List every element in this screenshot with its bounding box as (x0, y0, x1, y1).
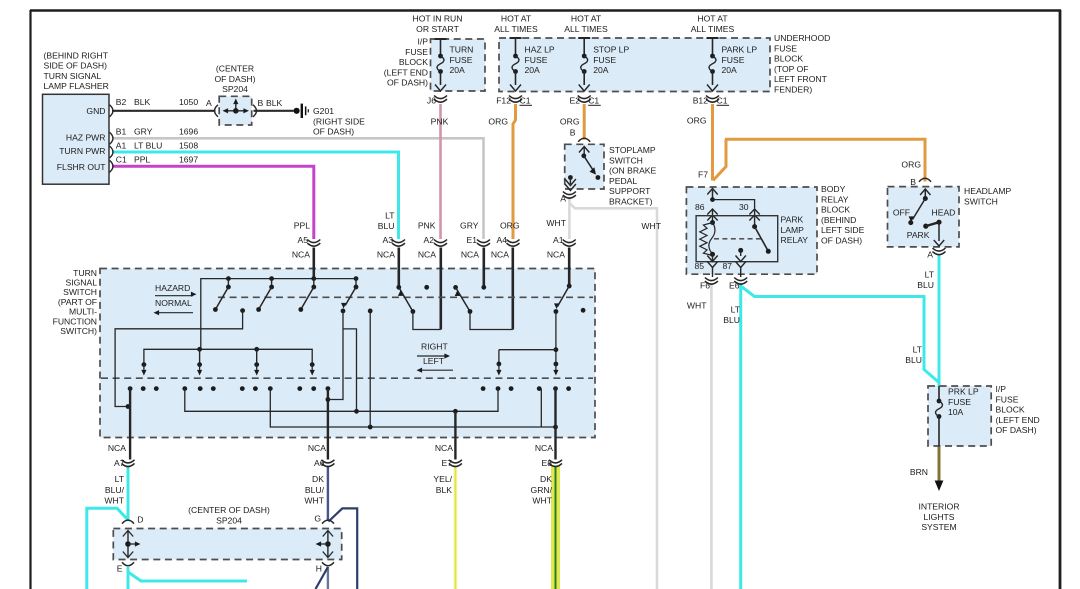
svg-text:A1: A1 (553, 235, 564, 245)
svg-text:FUSE: FUSE (525, 55, 548, 65)
connector J6 (434, 96, 447, 103)
relay pin 30 (749, 209, 759, 215)
svg-text:PEDAL: PEDAL (609, 176, 637, 186)
svg-text:NCA: NCA (547, 250, 565, 260)
svg-text:TURN: TURN (450, 45, 474, 55)
wire FLSHR OUT PPL 1697 (112, 166, 314, 239)
relay coil resistor (710, 220, 715, 225)
label INTERIOR LIGHTS SYSTEM (918, 502, 959, 533)
wire ORG branch to headlamp switch B (713, 139, 726, 180)
svg-text:1696: 1696 (179, 127, 198, 137)
output feed E7 (454, 411, 456, 459)
svg-text:GND: GND (86, 106, 105, 116)
label PARK LAMP RELAY (781, 215, 809, 246)
label HOT AT ALL TIMES (HAZ) (494, 14, 538, 34)
svg-text:20A: 20A (525, 65, 541, 75)
svg-text:SWITCH): SWITCH) (60, 326, 97, 336)
turn signal lamp flasher box (43, 94, 110, 184)
lower dashed position line (101, 377, 593, 379)
connector headlamp B (919, 178, 931, 182)
svg-text:C1: C1 (588, 96, 599, 106)
svg-text:NCA: NCA (377, 250, 395, 260)
svg-text:FUSE: FUSE (450, 55, 473, 65)
hazard contact bus (201, 279, 356, 350)
svg-text:HAZ PWR: HAZ PWR (66, 132, 106, 142)
svg-text:A: A (927, 250, 933, 260)
middle selector bus (144, 349, 312, 364)
wire LT BLU headlamp A to PRK LP fuse (938, 255, 941, 387)
interior lights system arrow (938, 478, 941, 482)
svg-text:BLK: BLK (436, 485, 453, 495)
connector stoplamp B (578, 138, 590, 142)
label (BEHIND RIGHT SIDE OF DASH) TURN SIGNAL LAMP FLASHER (44, 50, 109, 91)
svg-text:BLK: BLK (266, 98, 283, 108)
svg-text:F7: F7 (698, 170, 708, 180)
connector H (322, 562, 334, 566)
relay F7 entry arrow (712, 190, 714, 200)
svg-text:B2: B2 (116, 97, 127, 107)
node and feed to A7 group (240, 308, 245, 313)
svg-text:ALL TIMES: ALL TIMES (564, 24, 608, 34)
svg-text:E7: E7 (441, 458, 452, 468)
contact A3-A2 (right turn) (396, 285, 401, 290)
svg-text:FLSHR OUT: FLSHR OUT (57, 162, 106, 172)
svg-text:PPL: PPL (294, 221, 310, 231)
svg-text:SWITCH: SWITCH (964, 196, 998, 206)
svg-text:HEAD: HEAD (932, 208, 956, 218)
svg-text:RELAY: RELAY (781, 235, 809, 245)
svg-text:BLU/: BLU/ (305, 485, 325, 495)
wire DK GRN/WHT from E8 down (551, 466, 560, 589)
wire LT BLU/WHT from splice E down and right (128, 567, 247, 581)
label UNDERHOOD FUSE BLOCK (774, 33, 830, 95)
svg-text:OF DASH): OF DASH) (387, 78, 428, 88)
connector stoplamp A (563, 192, 576, 199)
fuse PRK LP FUSE 10A (938, 386, 940, 401)
label (CENTER OF DASH) SP204 top (214, 64, 255, 95)
fuse STOP LP FUSE 20A (578, 37, 590, 39)
svg-text:20A: 20A (722, 65, 738, 75)
output feed E8 (554, 389, 556, 460)
svg-text:PPL: PPL (134, 155, 150, 165)
svg-text:SUPPORT: SUPPORT (609, 186, 651, 196)
svg-text:HOT IN RUN: HOT IN RUN (413, 14, 463, 24)
svg-text:B1: B1 (116, 127, 127, 137)
svg-text:A: A (560, 194, 566, 204)
park lamp relay box (696, 216, 778, 262)
svg-text:30: 30 (739, 202, 749, 212)
svg-text:HOT AT: HOT AT (697, 14, 728, 24)
svg-text:OR START: OR START (416, 24, 459, 34)
I/P fuse block (PRK LP) box (928, 386, 991, 446)
splice internal right (327, 531, 329, 557)
splice SP204 (center of dash) (219, 96, 252, 125)
svg-text:FUSE: FUSE (593, 55, 616, 65)
svg-text:(ON BRAKE: (ON BRAKE (609, 166, 657, 176)
svg-text:FUSE: FUSE (774, 43, 797, 53)
svg-text:I/P: I/P (417, 37, 428, 47)
svg-text:SP204: SP204 (222, 84, 248, 94)
wire YEL/BLK from E7 down (454, 466, 458, 589)
upper dashed position line (218, 296, 593, 298)
svg-text:SIDE OF DASH): SIDE OF DASH) (44, 61, 108, 71)
svg-text:H: H (316, 564, 322, 574)
svg-text:NCA: NCA (435, 443, 453, 453)
wire LT BLU/WHT from A7 to splice D (127, 466, 130, 521)
body relay block box (686, 187, 817, 274)
svg-text:LT: LT (731, 305, 741, 315)
connector headlamp A (933, 248, 946, 255)
svg-text:E6: E6 (729, 281, 740, 291)
wire DK BLU/WHT from splice H down (327, 567, 329, 589)
svg-text:F6: F6 (700, 281, 710, 291)
splice internal left (127, 531, 129, 557)
svg-text:ALL TIMES: ALL TIMES (494, 24, 538, 34)
label I/P FUSE BLOCK (LEFT END OF DASH) (384, 37, 429, 88)
svg-text:OF DASH): OF DASH) (214, 74, 255, 84)
svg-text:NCA: NCA (461, 250, 479, 260)
headlamp switch internals (924, 190, 926, 199)
svg-text:HAZ LP: HAZ LP (525, 45, 555, 55)
svg-text:HEADLAMP: HEADLAMP (964, 186, 1012, 196)
svg-text:87: 87 (722, 261, 732, 271)
stoplamp switch box (565, 144, 604, 189)
label STOPLAMP SWITCH (ON BRAKE PEDAL SUPPORT BRACKET) (609, 145, 657, 207)
svg-text:C1: C1 (116, 155, 127, 165)
svg-text:NCA: NCA (292, 250, 310, 260)
label I/P FUSE BLOCK (LEFT END OF DASH) right (996, 384, 1040, 435)
svg-text:HAZARD: HAZARD (155, 283, 190, 293)
svg-text:B12: B12 (693, 96, 709, 106)
svg-text:LT BLU: LT BLU (134, 140, 162, 150)
wire from contact 4 to A6 line (328, 311, 343, 400)
svg-text:A6: A6 (314, 458, 325, 468)
relay feed wiring (710, 197, 715, 202)
wire GND BLK 1050 (112, 110, 216, 112)
relay mechanical link dashed (714, 238, 762, 240)
svg-text:ORG: ORG (500, 221, 520, 231)
contact position dots row (128, 386, 133, 391)
labels B BLK G201 (258, 98, 283, 108)
svg-text:E1: E1 (466, 235, 477, 245)
relay pin 85 (712, 254, 714, 261)
svg-text:LT: LT (925, 270, 935, 280)
svg-text:ORG: ORG (560, 117, 580, 127)
wire DK BLU/WHT from A6 to splice G (327, 466, 329, 521)
svg-text:WHT: WHT (687, 301, 707, 311)
svg-text:A2: A2 (423, 235, 434, 245)
svg-text:E8: E8 (541, 458, 552, 468)
headlamp switch box (888, 187, 960, 247)
svg-text:SWITCH: SWITCH (63, 287, 97, 297)
svg-text:NCA: NCA (418, 250, 436, 260)
wire ORG from PARK LP fuse B12 to relay F7 (711, 104, 714, 181)
svg-text:HOT AT: HOT AT (501, 14, 532, 24)
svg-text:OF DASH): OF DASH) (996, 425, 1037, 435)
svg-text:TURN SIGNAL: TURN SIGNAL (44, 71, 102, 81)
svg-text:STOP LP: STOP LP (593, 45, 629, 55)
svg-text:FUSE: FUSE (996, 394, 1019, 404)
svg-text:20A: 20A (593, 65, 609, 75)
svg-text:PARK: PARK (781, 215, 804, 225)
svg-text:TURN PWR: TURN PWR (59, 146, 105, 156)
label BODY RELAY BLOCK (BEHIND LEFT SIDE OF DASH) (821, 184, 865, 246)
svg-text:NCA: NCA (491, 250, 509, 260)
wire DK BLU/WHT branch from G down right (329, 508, 358, 589)
wire ORG from HAZ LP fuse F12 to A4 (513, 104, 516, 239)
svg-text:WHT: WHT (546, 218, 566, 228)
svg-text:LIGHTS: LIGHTS (923, 512, 954, 522)
svg-text:(PART OF: (PART OF (58, 297, 97, 307)
svg-text:WHT: WHT (532, 496, 552, 506)
hazard contact 2 (269, 276, 274, 281)
contact A1 (brake feed) (567, 284, 572, 289)
svg-text:J6: J6 (427, 96, 436, 106)
routing line H1 (185, 389, 498, 412)
svg-text:LEFT FRONT: LEFT FRONT (774, 74, 828, 84)
svg-text:B: B (910, 177, 916, 187)
wire PNK from TURN fuse J6 to A2 (439, 104, 442, 239)
svg-text:WHT: WHT (104, 496, 124, 506)
wire WHT stoplamp A branch right and down (569, 197, 657, 589)
svg-text:NCA: NCA (308, 443, 326, 453)
svg-text:86: 86 (695, 202, 705, 212)
svg-text:BRN: BRN (910, 467, 928, 477)
svg-text:I/P: I/P (996, 384, 1007, 394)
svg-text:RIGHT: RIGHT (421, 342, 448, 352)
svg-text:85: 85 (694, 261, 704, 271)
output feed A6 (327, 389, 329, 460)
hazard contact 1 (226, 276, 231, 281)
svg-text:ORG: ORG (687, 116, 707, 126)
svg-text:LT: LT (115, 474, 125, 484)
stoplamp switch internals (583, 147, 585, 156)
connector E2 C1 (578, 96, 591, 103)
svg-text:FUSE: FUSE (405, 47, 428, 57)
svg-text:GRN/: GRN/ (531, 485, 553, 495)
fuse HAZ LP FUSE 20A (510, 37, 522, 39)
svg-text:(TOP OF: (TOP OF (774, 64, 809, 74)
turn signal switch box (100, 269, 595, 438)
svg-text:(BEHIND: (BEHIND (821, 215, 856, 225)
connector E6 (734, 278, 747, 285)
wire LT BLU relay E6 down (739, 283, 742, 589)
svg-text:ORG: ORG (901, 160, 921, 170)
svg-text:HOT AT: HOT AT (571, 14, 602, 24)
wire HAZ PWR GRY 1696 (112, 138, 484, 239)
svg-text:A5: A5 (297, 235, 308, 245)
svg-text:D: D (137, 515, 143, 525)
label LT BLU under E6 (723, 305, 740, 325)
relay switch contact (752, 224, 757, 229)
svg-text:1508: 1508 (179, 140, 198, 150)
svg-text:LEFT: LEFT (423, 356, 445, 366)
fuse PARK LP FUSE 20A (707, 37, 719, 39)
label HEADLAMP SWITCH (964, 186, 1012, 206)
svg-text:GRY: GRY (134, 127, 153, 137)
svg-text:F12: F12 (496, 96, 511, 106)
svg-text:FENDER): FENDER) (774, 85, 812, 95)
label HOT AT ALL TIMES (STOP) (564, 14, 608, 34)
splice SP204 bottom box (113, 529, 341, 560)
svg-text:SWITCH: SWITCH (609, 155, 643, 165)
svg-text:BLU: BLU (917, 280, 934, 290)
svg-text:A1: A1 (116, 140, 127, 150)
svg-text:DK: DK (312, 474, 324, 484)
svg-text:TURN: TURN (73, 268, 97, 278)
svg-text:BLU/: BLU/ (105, 485, 125, 495)
wire labels row HAZ (116, 127, 199, 137)
svg-text:LAMP FLASHER: LAMP FLASHER (44, 81, 109, 91)
wire WHT relay F6 down (710, 283, 713, 589)
flasher pin labels (57, 106, 106, 172)
svg-text:OFF: OFF (893, 208, 910, 218)
svg-text:BLU: BLU (905, 355, 922, 365)
svg-text:BLOCK: BLOCK (821, 205, 850, 215)
svg-text:(LEFT END: (LEFT END (384, 67, 428, 77)
connector E (122, 562, 134, 566)
label (CENTER OF DASH) SP204 bottom (188, 505, 270, 525)
label HOT AT ALL TIMES (PARK) (691, 14, 735, 34)
svg-text:(BEHIND RIGHT: (BEHIND RIGHT (44, 50, 109, 60)
svg-text:NORMAL: NORMAL (155, 298, 192, 308)
svg-text:RELAY: RELAY (821, 194, 849, 204)
svg-text:E: E (117, 564, 123, 574)
wire TURN PWR LT BLU 1508 (112, 152, 399, 239)
svg-text:G: G (314, 514, 321, 524)
tap from contact4 line to H1 (343, 329, 357, 411)
I/P fuse block box (431, 39, 486, 91)
svg-text:(CENTER OF DASH): (CENTER OF DASH) (188, 505, 270, 515)
svg-text:OF DASH): OF DASH) (313, 127, 354, 137)
wire LT BLU relay E6 to PRK LP fuse (741, 286, 939, 383)
ground G201 (294, 104, 309, 118)
svg-text:20A: 20A (450, 65, 466, 75)
svg-text:BLK: BLK (134, 97, 151, 107)
flasher pin brackets (110, 105, 114, 173)
relay pin 86 (707, 209, 717, 215)
connector D (122, 520, 134, 524)
contact E1-A4 (left turn) (481, 285, 486, 290)
labels LT BLU on headlamp feed (917, 270, 934, 290)
svg-text:LT: LT (385, 211, 395, 221)
svg-text:BLOCK: BLOCK (774, 54, 803, 64)
svg-text:BRACKET): BRACKET) (609, 197, 653, 207)
wire LT BLU/WHT branch to left edge (87, 508, 128, 589)
svg-text:PNK: PNK (418, 221, 436, 231)
svg-text:WHT: WHT (304, 496, 324, 506)
svg-text:B: B (570, 128, 576, 138)
svg-text:MULTI-: MULTI- (69, 307, 97, 317)
svg-text:1050: 1050 (179, 97, 198, 107)
wire labels row TURN (116, 140, 199, 150)
svg-text:E2: E2 (569, 96, 580, 106)
svg-text:1697: 1697 (179, 155, 198, 165)
svg-text:ORG: ORG (488, 117, 508, 127)
svg-text:YEL/: YEL/ (433, 474, 452, 484)
svg-text:DK: DK (540, 474, 552, 484)
svg-text:C1: C1 (520, 96, 531, 106)
svg-text:PNK: PNK (431, 117, 449, 127)
svg-text:OF DASH): OF DASH) (821, 236, 862, 246)
label HOT IN RUN OR START (413, 14, 463, 34)
svg-text:A7: A7 (114, 458, 125, 468)
connector G (322, 520, 334, 524)
connector F12 C1 (509, 96, 522, 103)
svg-text:SIGNAL: SIGNAL (65, 278, 97, 288)
connector F6 (705, 278, 718, 285)
svg-text:ALL TIMES: ALL TIMES (691, 24, 735, 34)
svg-text:SYSTEM: SYSTEM (921, 522, 956, 532)
output feed A7 (129, 389, 131, 460)
svg-text:BLU: BLU (378, 221, 395, 231)
wire WHT stoplamp A to A1 (568, 197, 571, 239)
svg-text:GRY: GRY (460, 221, 479, 231)
svg-text:(RIGHT SIDE: (RIGHT SIDE (313, 116, 365, 126)
svg-text:B: B (258, 98, 264, 108)
routing line H2 (270, 389, 555, 427)
wire ORG from STOP LP fuse E2 to stoplamp B (583, 104, 586, 140)
svg-text:G201: G201 (313, 106, 334, 116)
svg-text:LAMP: LAMP (781, 225, 805, 235)
label TURN SIGNAL SWITCH (PART OF MULTI-FUNCTION SWITCH) (53, 268, 98, 336)
svg-text:PARK: PARK (907, 230, 930, 240)
svg-text:INTERIOR: INTERIOR (918, 502, 959, 512)
underhood fuse block box (499, 38, 770, 92)
svg-text:A: A (206, 98, 212, 108)
svg-text:SP204: SP204 (216, 515, 242, 525)
svg-text:A4: A4 (496, 235, 507, 245)
svg-text:LT: LT (913, 345, 923, 355)
hazard contact 4 (354, 276, 359, 281)
svg-text:FUSE: FUSE (722, 55, 745, 65)
svg-text:LEFT SIDE: LEFT SIDE (821, 225, 865, 235)
svg-text:PARK LP: PARK LP (722, 45, 758, 55)
fuse TURN FUSE 20A (435, 38, 447, 40)
svg-text:BLU: BLU (723, 315, 740, 325)
wire labels row FLSHR (116, 155, 199, 165)
svg-text:FUNCTION: FUNCTION (53, 316, 97, 326)
svg-text:10A: 10A (948, 407, 964, 417)
svg-text:NCA: NCA (108, 443, 126, 453)
svg-text:BLOCK: BLOCK (996, 405, 1025, 415)
wire BRN from PRK LP fuse to interior lights (938, 446, 941, 479)
svg-text:FUSE: FUSE (948, 397, 971, 407)
svg-text:NCA: NCA (535, 443, 553, 453)
svg-text:(CENTER: (CENTER (216, 64, 254, 74)
svg-text:BODY: BODY (821, 184, 846, 194)
svg-text:PRK LP: PRK LP (948, 387, 979, 397)
svg-text:WHT: WHT (641, 221, 661, 231)
hazard contact 3 (311, 276, 316, 281)
svg-text:UNDERHOOD: UNDERHOOD (774, 33, 830, 43)
connector B12 C1 (706, 96, 719, 103)
svg-text:(LEFT END: (LEFT END (996, 415, 1040, 425)
svg-text:STOPLAMP: STOPLAMP (609, 145, 656, 155)
svg-text:C1: C1 (717, 96, 728, 106)
relay pin 87 (738, 248, 743, 253)
svg-text:BLOCK: BLOCK (399, 57, 428, 67)
wire labels row GND (116, 97, 212, 108)
